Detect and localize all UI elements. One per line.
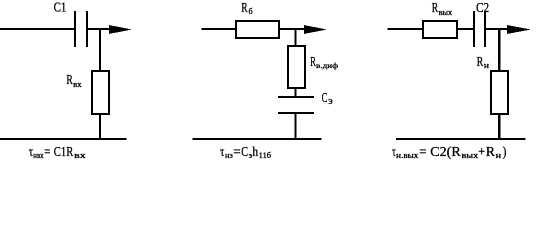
svg-text:R: R (486, 145, 496, 160)
svg-text:=: = (233, 145, 240, 160)
wire: junction drop circuit 3 (498, 29, 501, 71)
svg-text:τ: τ (220, 145, 224, 160)
svg-text:C: C (241, 145, 248, 160)
svg-text:): ) (503, 145, 507, 160)
svg-text:н: н (496, 151, 502, 160)
label R_вых (432, 1, 453, 17)
wire: input wire circuit 1 (0, 28, 74, 30)
wire: input wire circuit 3 (388, 28, 423, 30)
formula: tau_nz = C_e h_11b (220, 145, 271, 160)
svg-text:=: = (419, 145, 426, 160)
wire: R_б to output arrow circuit 2 (280, 28, 306, 30)
ground rail circuit 1 (0, 138, 127, 140)
wire: R_в.диф to C_э (295, 88, 297, 97)
arrow: output circuit 1 (109, 25, 132, 34)
capacitor C_э (278, 97, 314, 113)
formula: tau_nvh = C1 R_vh (29, 145, 86, 160)
svg-text:C: C (322, 91, 328, 106)
svg-text:C1R: C1R (54, 145, 74, 160)
label C_э (322, 91, 333, 107)
svg-text:нз: нз (225, 151, 233, 160)
arrow: output circuit 2 (304, 25, 327, 34)
wire: C2 to output arrow circuit 3 (486, 28, 508, 30)
capacitor C2 (474, 11, 485, 47)
svg-text:вх: вх (73, 80, 81, 89)
svg-text:+: + (478, 145, 485, 160)
label C2 (476, 1, 489, 16)
svg-text:э: э (328, 96, 332, 107)
svg-text:=: = (44, 145, 50, 160)
svg-text:нвх: нвх (33, 151, 43, 160)
wire: C_э to rail circuit 2 (295, 114, 297, 140)
wire: R_н to rail circuit 3 (498, 115, 501, 140)
formula: tau_n.vyh = C2 (R_vyh + R_n) (392, 145, 507, 160)
label R_н (477, 55, 490, 70)
ground rail circuit 3 (396, 138, 526, 140)
label R_в.диф (310, 55, 338, 70)
svg-text:11б: 11б (259, 151, 271, 160)
capacitor C1 (75, 11, 87, 47)
svg-text:R: R (241, 1, 248, 16)
resistor R_вх (92, 71, 109, 114)
svg-text:н: н (484, 61, 490, 70)
resistor R_б (236, 21, 279, 38)
wire: R_вых to C2 (457, 28, 473, 30)
svg-text:б: б (249, 7, 253, 16)
svg-text:вых: вых (462, 151, 479, 160)
svg-text:вых: вых (439, 8, 453, 17)
svg-text:н.вых: н.вых (396, 151, 418, 160)
resistor R_вых (423, 21, 457, 38)
svg-text:в.диф: в.диф (316, 61, 338, 70)
wire: junction drop circuit 2 (295, 29, 297, 46)
wire: junction drop circuit 1 (99, 29, 101, 71)
svg-text:C2(R: C2(R (430, 145, 461, 160)
resistor R_н (491, 71, 508, 114)
svg-text:R: R (477, 55, 484, 70)
svg-text:C2: C2 (476, 1, 489, 16)
wire: R_вх to rail circuit 1 (99, 115, 101, 140)
svg-text:h: h (252, 145, 258, 160)
svg-text:C1: C1 (54, 1, 67, 16)
ground rail circuit 2 (193, 138, 322, 140)
wire: input wire circuit 2 (201, 28, 236, 30)
svg-text:вх: вх (74, 151, 86, 160)
label R_б (241, 1, 252, 16)
resistor R_в.диф (288, 46, 305, 88)
arrow: output circuit 3 (507, 25, 531, 34)
label R_вх (66, 73, 81, 89)
label C1 (54, 1, 67, 16)
wire: C1 to output arrow circuit 1 (88, 28, 110, 30)
